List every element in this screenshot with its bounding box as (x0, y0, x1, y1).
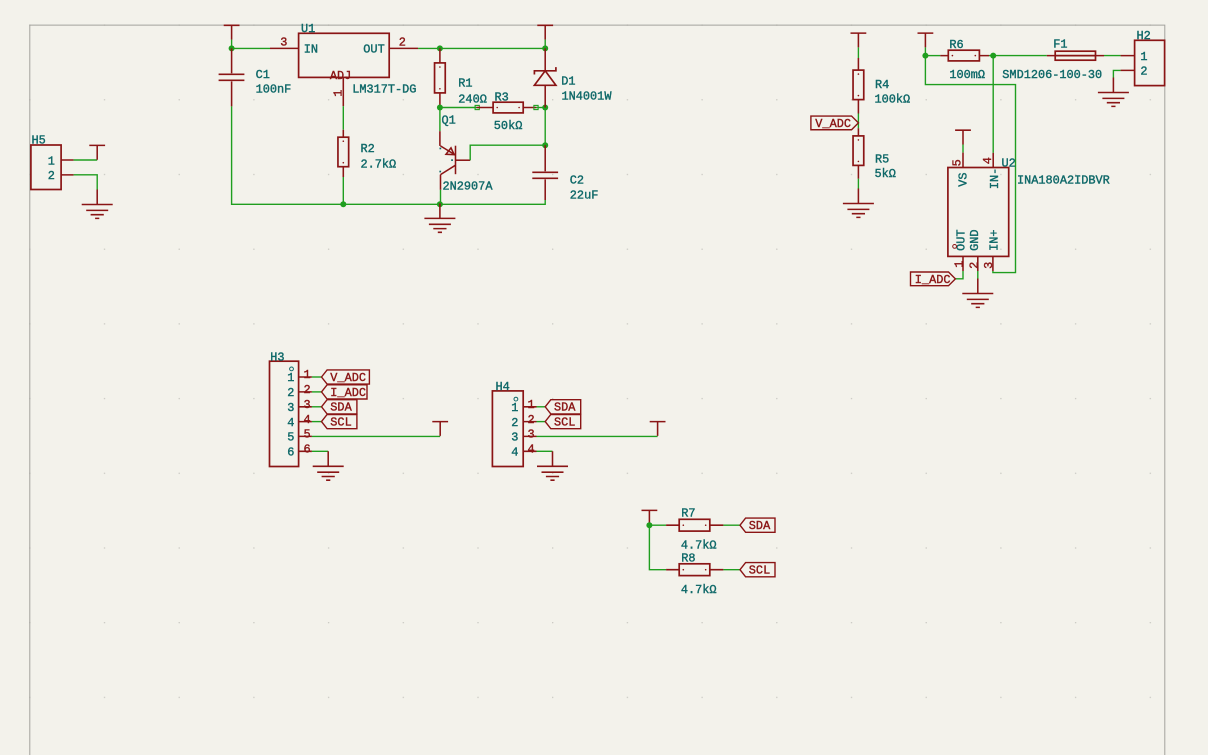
op-amp U1 regulator LM317 (270, 22, 418, 106)
wire R7 to label (723, 524, 740, 526)
svg-text:R1: R1 (458, 77, 472, 91)
power symbol H4 (650, 422, 666, 436)
svg-text:I_ADC: I_ADC (915, 273, 951, 287)
wire H3 pin4 (312, 421, 322, 423)
node marker R3 left (475, 105, 479, 109)
wire H3 pin1 (312, 376, 322, 378)
svg-text:100nF: 100nF (256, 82, 292, 96)
svg-text:SDA: SDA (749, 519, 771, 533)
capacitor C2 (532, 145, 598, 202)
junction node R6 left (922, 53, 928, 59)
global label V_ADC H3 (322, 370, 370, 385)
junction node C1/U1-IN (229, 45, 235, 51)
svg-text:4: 4 (981, 157, 995, 164)
svg-text:5: 5 (304, 428, 311, 442)
wire (648, 524, 650, 527)
svg-text:H5: H5 (32, 134, 46, 148)
svg-text:R6: R6 (949, 38, 963, 52)
global label SDA H4 (545, 400, 581, 415)
wire F1 to H2 (1104, 55, 1121, 57)
power symbol VIN top-left (224, 25, 240, 39)
svg-text:1: 1 (511, 401, 518, 415)
svg-text:R4: R4 (875, 78, 889, 92)
svg-text:1: 1 (332, 90, 346, 97)
svg-text:R2: R2 (361, 142, 375, 156)
wire (544, 40, 546, 49)
junction node D1 bottom (542, 105, 548, 111)
fuse F1 (1002, 38, 1104, 83)
capacitor C1 (219, 48, 292, 106)
connector H5 (31, 134, 74, 190)
svg-text:U1: U1 (301, 22, 315, 36)
svg-text:V_ADC: V_ADC (815, 117, 851, 131)
ground H3 (313, 451, 344, 480)
wire H4 pin4 to ground (537, 450, 553, 452)
svg-text:R3: R3 (495, 91, 509, 105)
svg-text:H3: H3 (270, 350, 284, 364)
svg-text:INA180A2IDBVR: INA180A2IDBVR (1017, 173, 1110, 187)
svg-text:3: 3 (287, 401, 294, 415)
wire R5 to ground (857, 179, 859, 189)
svg-text:4: 4 (304, 413, 311, 427)
resistor R8 (666, 551, 723, 597)
svg-text:Q1: Q1 (442, 114, 456, 128)
svg-text:SMD1206-100-30: SMD1206-100-30 (1002, 68, 1102, 82)
svg-text:1: 1 (1140, 50, 1147, 64)
svg-text:4: 4 (511, 446, 518, 460)
power symbol R6 left (918, 33, 934, 47)
connector H3 (270, 350, 312, 466)
svg-text:IN+: IN+ (988, 229, 1002, 250)
svg-text:2: 2 (528, 413, 535, 427)
wire Q1 emitter to rail (440, 190, 442, 205)
power symbol R4 top (851, 33, 867, 47)
wire (231, 40, 233, 49)
svg-text:1: 1 (287, 371, 294, 385)
global label I_ADC H3 (322, 385, 368, 400)
junction node R1 bottom (437, 105, 443, 111)
svg-text:100kΩ: 100kΩ (875, 93, 911, 107)
svg-text:R5: R5 (875, 153, 889, 167)
wire down to R8 (649, 525, 666, 570)
svg-text:2N2907A: 2N2907A (443, 179, 494, 193)
svg-text:1: 1 (48, 154, 55, 168)
ground H4 (537, 451, 568, 480)
power symbol H5 (89, 145, 105, 159)
wire R4 to R5 (857, 114, 859, 129)
svg-text:3: 3 (511, 431, 518, 445)
junction node D1 top (542, 45, 548, 51)
svg-text:IN-: IN- (988, 168, 1002, 189)
svg-text:2: 2 (304, 383, 311, 397)
svg-text:IN: IN (304, 43, 318, 57)
svg-text:1: 1 (528, 398, 535, 412)
global label SCL H3 (322, 415, 357, 430)
wire H3 pin6 to ground (312, 450, 328, 452)
svg-text:2: 2 (287, 386, 294, 400)
wire ADJ to R2 (342, 106, 344, 130)
wire D1 to C2 node (544, 108, 546, 146)
transistor Q1 2N2907A (439, 108, 493, 194)
wire H4 pin3 to power (537, 435, 658, 437)
resistor R3 (477, 91, 536, 134)
svg-text:6: 6 (287, 446, 294, 460)
svg-text:6: 6 (304, 443, 311, 457)
svg-text:50kΩ: 50kΩ (494, 119, 523, 133)
wire (857, 47, 859, 58)
junction node R1 top (437, 45, 443, 51)
svg-text:1: 1 (304, 368, 311, 382)
svg-text:3: 3 (304, 398, 311, 412)
svg-text:V_ADC: V_ADC (330, 371, 366, 385)
svg-text:4.7kΩ: 4.7kΩ (681, 583, 717, 597)
resistor R5 (853, 128, 896, 181)
svg-text:SDA: SDA (330, 401, 352, 415)
wire H4 pin2 (537, 421, 546, 423)
ground R5 (843, 189, 874, 218)
wire H3 pin3 (312, 406, 322, 408)
resistor R1 (435, 48, 487, 107)
wire H4 pin1 (537, 406, 546, 408)
wire U2 OUT to label (955, 271, 963, 279)
wire R6 right to U2 IN- (992, 56, 994, 153)
svg-text:ADJ: ADJ (330, 69, 351, 83)
svg-text:2: 2 (511, 416, 518, 430)
svg-text:C2: C2 (570, 174, 584, 188)
svg-text:2: 2 (399, 35, 406, 49)
svg-text:4.7kΩ: 4.7kΩ (681, 538, 717, 552)
svg-text:3: 3 (982, 262, 996, 269)
svg-text:2.7kΩ: 2.7kΩ (361, 157, 397, 171)
power symbol H3 (432, 422, 448, 436)
svg-text:240Ω: 240Ω (458, 92, 487, 106)
wire R2 to rail (342, 177, 344, 204)
wire (962, 145, 964, 153)
svg-text:U2: U2 (1002, 157, 1016, 171)
ground Q1 (424, 203, 455, 232)
global label SDA R7 (740, 518, 775, 533)
wire R3 to D1 node (536, 107, 545, 109)
svg-text:SCL: SCL (749, 564, 770, 578)
wire (649, 524, 666, 526)
ground H5 (82, 190, 113, 219)
wire left rail down and bottom rail (232, 106, 546, 204)
resistor R6 shunt (940, 38, 989, 82)
svg-text:F1: F1 (1053, 38, 1067, 52)
svg-text:H4: H4 (496, 380, 510, 394)
svg-text:LM317T-DG: LM317T-DG (352, 83, 416, 97)
wire H5 pin2 to ground (74, 175, 98, 190)
svg-text:H2: H2 (1137, 29, 1151, 43)
svg-text:SCL: SCL (554, 416, 575, 430)
svg-text:100mΩ: 100mΩ (949, 68, 985, 82)
wire H3 pin5 to power (312, 435, 440, 437)
svg-text:2: 2 (967, 262, 981, 269)
connector H2 (1121, 29, 1165, 86)
wire R6 left to U2 IN+ (925, 56, 1015, 273)
junction node C2 top (542, 142, 548, 148)
svg-text:5: 5 (287, 431, 294, 445)
ground U2 (962, 279, 993, 308)
svg-text:R7: R7 (681, 506, 695, 520)
svg-text:5kΩ: 5kΩ (875, 167, 896, 181)
svg-text:SCL: SCL (330, 416, 351, 430)
wire (232, 47, 270, 49)
power symbol U2 VS (955, 130, 971, 144)
connector H4 (492, 380, 536, 467)
global label SCL R8 (740, 563, 775, 578)
junction node Q1 rail (437, 201, 443, 207)
wire R8 to label (723, 569, 740, 571)
svg-text:R8: R8 (681, 551, 695, 565)
svg-text:D1: D1 (561, 75, 575, 89)
wire R1 to R3 (440, 107, 477, 109)
svg-text:3: 3 (528, 428, 535, 442)
svg-text:22uF: 22uF (570, 189, 599, 203)
power symbol R7 R8 (642, 510, 658, 524)
wire H5 pin1 to power (74, 159, 98, 161)
ground H2 (1098, 78, 1129, 107)
global label I_ADC (911, 272, 956, 287)
svg-text:4: 4 (528, 443, 535, 457)
op-amp U2 INA180 (948, 153, 1110, 271)
global label SDA H3 (322, 400, 357, 415)
svg-text:VS: VS (957, 173, 971, 187)
junction node R2 bottom (340, 201, 346, 207)
wire U2 GND pin (977, 271, 979, 280)
global label SCL H4 (545, 415, 581, 430)
svg-text:5: 5 (951, 159, 965, 166)
resistor R2 (338, 130, 396, 177)
resistor R7 (666, 506, 723, 552)
svg-text:OUT: OUT (363, 43, 384, 57)
svg-text:I_ADC: I_ADC (330, 386, 366, 400)
svg-text:C1: C1 (256, 68, 270, 82)
junction node R7 R8 (646, 522, 652, 528)
svg-text:SDA: SDA (554, 401, 576, 415)
resistor R4 (853, 58, 910, 114)
svg-text:2: 2 (48, 169, 55, 183)
wire (924, 47, 926, 55)
svg-text:4: 4 (287, 416, 294, 430)
svg-text:GND: GND (968, 229, 982, 250)
svg-text:2: 2 (1140, 65, 1147, 79)
wire (989, 55, 993, 57)
wire H2 pin2 to ground (1113, 70, 1120, 77)
global label V_ADC (811, 116, 859, 131)
svg-text:3: 3 (280, 35, 287, 49)
wire (925, 55, 940, 57)
svg-text:1: 1 (952, 261, 966, 268)
wire OUT rail (418, 47, 545, 49)
diode D1 zener (534, 48, 612, 107)
svg-text:1N4001W: 1N4001W (562, 90, 613, 104)
power symbol D1 top (537, 25, 553, 39)
node marker R3 right (534, 105, 538, 109)
wire R6 right to F1 (993, 55, 1047, 57)
wire Q1 base to C2 node (470, 145, 545, 160)
junction node R6 right (990, 53, 996, 59)
wire H3 pin2 (312, 391, 322, 393)
